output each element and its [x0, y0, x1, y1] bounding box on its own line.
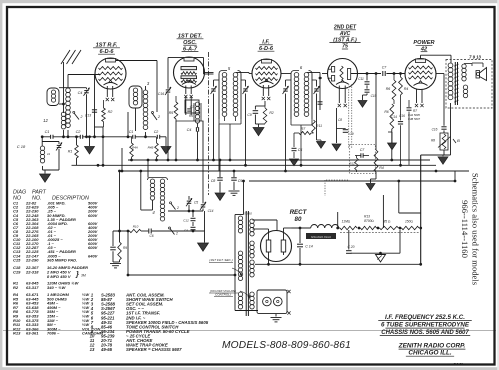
- svg-text:C 18: C 18: [17, 144, 26, 149]
- svg-text:SPEAKER FIELD: SPEAKER FIELD: [311, 235, 331, 239]
- svg-text:C1: C1: [129, 130, 134, 134]
- svg-text:C11: C11: [358, 77, 364, 81]
- svg-text:C 20: C 20: [348, 245, 355, 249]
- svg-text:C5: C5: [298, 148, 303, 152]
- svg-text:CHASSIS NOS. 5605 AND 5607: CHASSIS NOS. 5605 AND 5607: [381, 330, 469, 336]
- svg-text:C14: C14: [391, 115, 397, 119]
- svg-text:966--1114--1160: 966--1114--1160: [460, 200, 470, 258]
- svg-text:C8: C8: [211, 179, 216, 183]
- svg-text:8 MFD 450 V: 8 MFD 450 V: [47, 274, 71, 279]
- svg-text:R4B: R4B: [148, 146, 154, 150]
- svg-text:C2: C2: [154, 130, 159, 134]
- svg-text:11MΩ: 11MΩ: [342, 219, 351, 223]
- svg-text:C4A 5605: C4A 5605: [408, 113, 420, 117]
- svg-text:R4: R4: [379, 166, 384, 170]
- svg-text:R4: R4: [404, 87, 409, 91]
- svg-text:C4: C4: [187, 128, 192, 132]
- svg-text:R1: R1: [68, 150, 73, 154]
- svg-text:MODELS-808-809-860-861: MODELS-808-809-860-861: [222, 340, 351, 351]
- svg-text:150Ω: 150Ω: [405, 220, 414, 224]
- svg-text:C 14: C 14: [305, 245, 313, 249]
- svg-text:C15: C15: [13, 257, 21, 262]
- svg-text:340 ~ ½W: 340 ~ ½W: [47, 285, 67, 290]
- svg-text:SPEAKER = CHASSIS 5607: SPEAKER = CHASSIS 5607: [126, 347, 182, 352]
- svg-text:3M: 3M: [81, 273, 86, 277]
- svg-text:C4: C4: [78, 91, 83, 95]
- svg-text:8700Ω: 8700Ω: [364, 219, 374, 223]
- svg-text:R6: R6: [384, 110, 388, 114]
- svg-text:2: 2: [175, 232, 178, 236]
- svg-text:C14: C14: [208, 209, 214, 213]
- svg-text:365 MMFD PAD.: 365 MMFD PAD.: [47, 257, 77, 262]
- svg-text:R2: R2: [269, 111, 273, 115]
- svg-text:RECT: RECT: [290, 209, 308, 216]
- svg-text:63-317: 63-317: [26, 285, 39, 290]
- svg-text:}: }: [75, 269, 79, 278]
- svg-text:C13: C13: [85, 114, 91, 118]
- svg-text:C5: C5: [194, 201, 198, 205]
- svg-text:C16: C16: [399, 114, 405, 118]
- svg-text:R5: R5: [169, 111, 174, 115]
- svg-text:600V: 600V: [88, 213, 98, 218]
- svg-text:80: 80: [295, 216, 302, 223]
- svg-text:C4B 5607: C4B 5607: [408, 117, 420, 121]
- svg-text:R4A: R4A: [132, 146, 138, 150]
- svg-text:50/60: 50/60: [244, 212, 252, 216]
- svg-text:12: 12: [43, 118, 48, 123]
- svg-text:R13: R13: [13, 331, 21, 336]
- svg-text:R7: R7: [413, 109, 417, 113]
- svg-text:C12: C12: [183, 219, 189, 223]
- svg-text:6 TUBE SUPERHETERODYNE: 6 TUBE SUPERHETERODYNE: [381, 322, 470, 329]
- svg-text:C6: C6: [149, 234, 153, 238]
- svg-text:C8: C8: [338, 118, 342, 122]
- svg-text:B: B: [457, 138, 460, 143]
- svg-text:11: 11: [47, 152, 50, 156]
- svg-text:C16: C16: [432, 128, 438, 132]
- svg-text:CHICAGO ILL.: CHICAGO ILL.: [408, 350, 452, 357]
- svg-text:2: 2: [80, 115, 83, 119]
- svg-text:22-318: 22-318: [25, 269, 39, 274]
- svg-text:R2: R2: [13, 285, 19, 290]
- svg-text:R13: R13: [364, 214, 370, 218]
- svg-text:C1: C1: [45, 130, 50, 134]
- svg-text:63-361: 63-361: [26, 331, 39, 336]
- svg-text:R9: R9: [123, 246, 127, 250]
- svg-text:C4: C4: [184, 229, 188, 233]
- svg-text:Schematics also used for model: Schematics also used for models: [471, 173, 481, 286]
- svg-text:ZENITH RADIO CORP.: ZENITH RADIO CORP.: [398, 343, 466, 350]
- svg-text:49-65: 49-65: [100, 347, 113, 352]
- svg-text:2: 2: [176, 206, 179, 210]
- svg-text:7 9 13: 7 9 13: [469, 55, 481, 60]
- svg-text:13: 13: [90, 347, 95, 352]
- svg-text:C16: C16: [158, 92, 164, 96]
- svg-text:(1ST FILT. SEC.): (1ST FILT. SEC.): [209, 258, 232, 262]
- svg-text:R10: R10: [133, 224, 139, 228]
- svg-text:I.F. FREQUENCY 252.5 K.C.: I.F. FREQUENCY 252.5 K.C.: [385, 314, 465, 321]
- svg-text:7086 ~: 7086 ~: [47, 331, 60, 336]
- svg-text:C19: C19: [13, 269, 21, 274]
- svg-text:600V: 600V: [88, 245, 98, 250]
- svg-text:R8: R8: [431, 139, 435, 143]
- svg-text:C9: C9: [238, 179, 243, 183]
- svg-text:ann 7-9-51: ann 7-9-51: [447, 363, 463, 367]
- svg-text:R6: R6: [386, 87, 391, 91]
- svg-text:22-290: 22-290: [25, 257, 39, 262]
- svg-text:640V: 640V: [88, 253, 98, 258]
- svg-text:85 Ω: 85 Ω: [383, 220, 391, 224]
- svg-text:R6: R6: [189, 114, 193, 118]
- svg-text:C9: C9: [247, 113, 251, 117]
